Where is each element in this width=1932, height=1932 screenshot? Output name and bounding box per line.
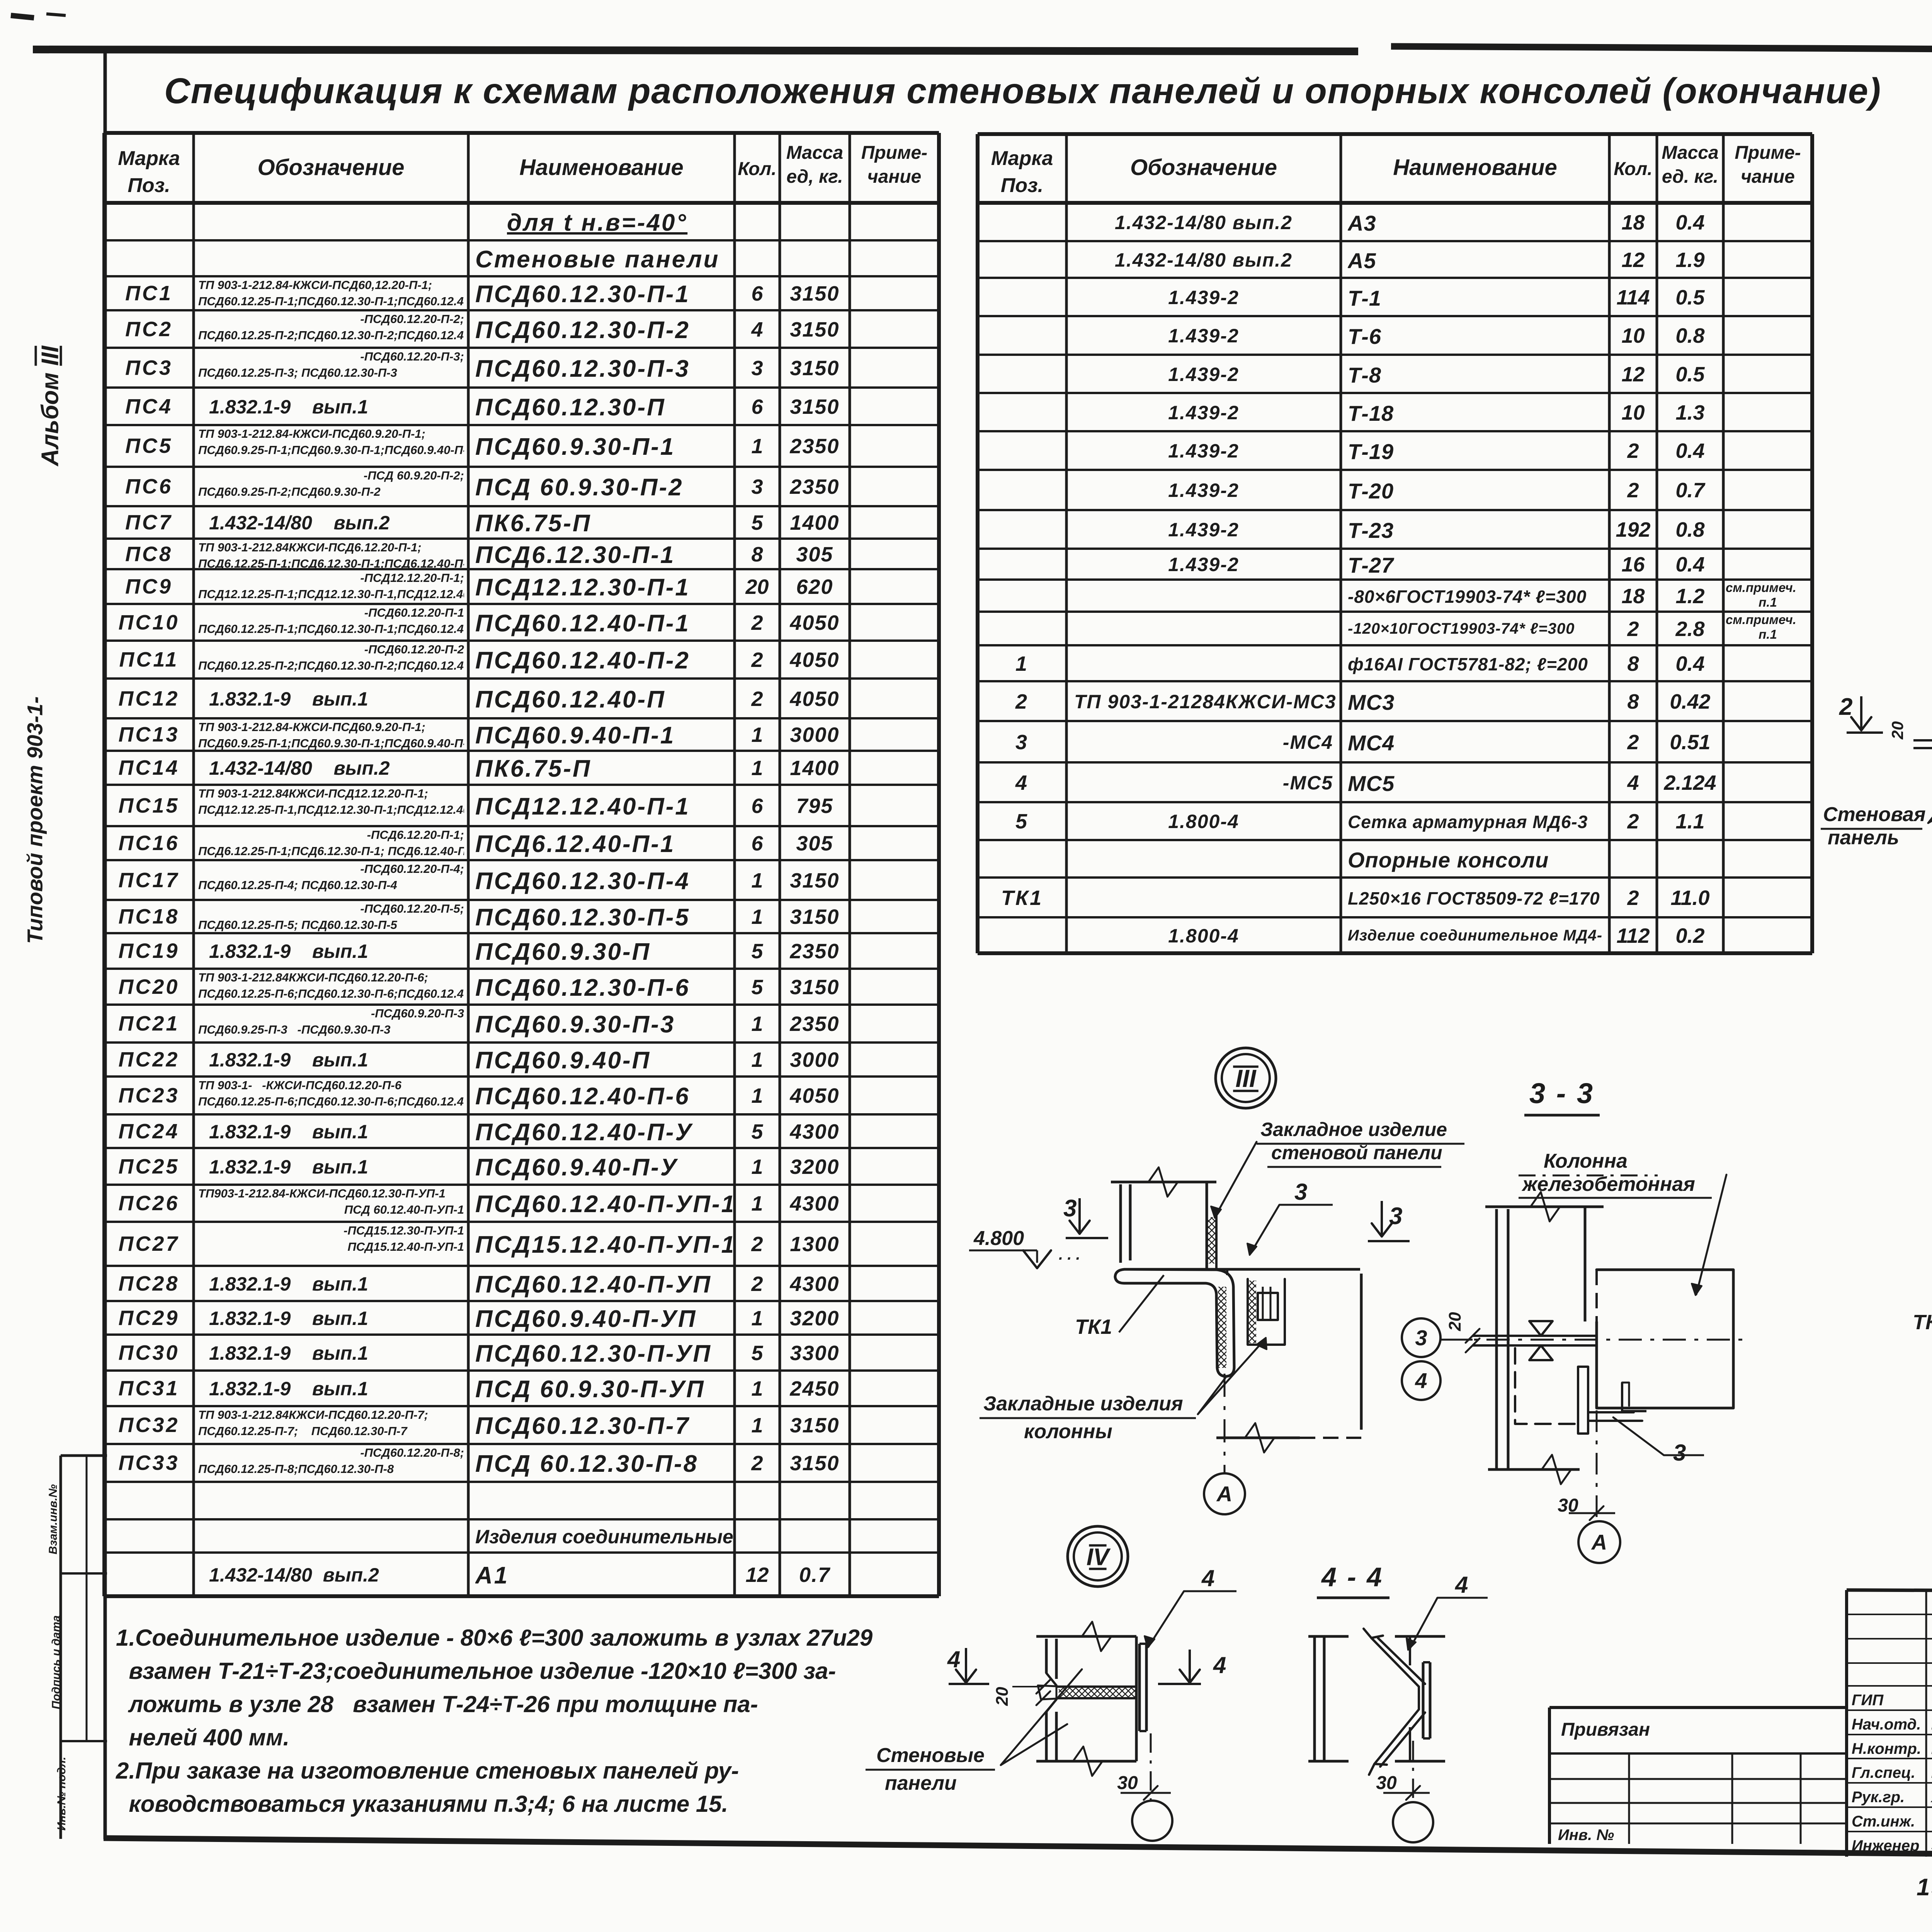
title block outer + columns	[1847, 1590, 1932, 1593]
margin text Типовой проект	[22, 673, 48, 967]
svg-text:Привязан: Привязан	[1561, 1719, 1650, 1740]
section 4-4 top line	[1395, 1635, 1445, 1638]
svg-text:Рук.гр.: Рук.гр.	[1852, 1789, 1905, 1806]
svg-text:Ст.инж.: Ст.инж.	[1852, 1813, 1915, 1830]
section 3-3 dashed hidden panel below joint	[1515, 1348, 1580, 1424]
node III TK1 shelf angle	[1115, 1269, 1234, 1376]
section 4-4 right edge verticals	[1409, 1636, 1411, 1665]
node III wall panel	[1111, 1181, 1216, 1184]
node III axis line + circle А	[1224, 1374, 1226, 1473]
svg-text:Н.контр.: Н.контр.	[1852, 1740, 1921, 1757]
scan artifact marks top-left	[11, 15, 34, 18]
node IV joint with mortar	[1056, 1685, 1136, 1688]
margin stamp boxes	[61, 1454, 107, 1457]
node IV embed plate right	[1138, 1644, 1141, 1731]
section 3-3 left column	[1485, 1206, 1604, 1208]
right table header text	[978, 145, 1066, 199]
section 3-3 right column block	[1597, 1270, 1733, 1408]
node III marker circle	[1216, 1048, 1276, 1108]
margin rotated small labels	[47, 1461, 60, 1577]
section 4-4 panel edge	[1308, 1635, 1349, 1638]
svg-text:Гл.спец.: Гл.спец.	[1852, 1764, 1915, 1781]
node IV axis circle	[1132, 1801, 1172, 1841]
svg-text:ГИП: ГИП	[1852, 1692, 1884, 1709]
node III section cut 3 (right)	[1381, 1201, 1383, 1236]
right specification table grid	[978, 132, 1812, 136]
node IV upper panel	[1036, 1635, 1136, 1638]
svg-text:Инженер: Инженер	[1852, 1837, 1919, 1854]
svg-text:19452-04 ЗО: 19452-04 ЗО	[1917, 1874, 1932, 1901]
svg-text:Нач.отд.: Нач.отд.	[1852, 1716, 1921, 1733]
node IV lower panel	[1046, 1699, 1056, 1712]
node IV marker circle	[1068, 1526, 1128, 1587]
sheet frame bottom border	[104, 1838, 1932, 1860]
title block staff row lines	[1847, 1614, 1932, 1615]
section 4-4 embed plate	[1422, 1662, 1425, 1738]
section 3-3 joint with diamonds	[1473, 1335, 1597, 1337]
left table header text	[104, 145, 194, 199]
node III embed pocket in column	[1248, 1279, 1285, 1345]
node IV section cut 4 (right)	[1189, 1650, 1191, 1683]
left table cell texts	[507, 209, 732, 236]
right table cell texts	[1074, 211, 1333, 234]
section 3-3 embed plate and angle	[1578, 1367, 1588, 1434]
sheet frame left border	[104, 49, 107, 1839]
notes text	[116, 1621, 872, 1821]
node III column body	[1226, 1269, 1228, 1275]
svg-text:Инв. №: Инв. №	[1558, 1827, 1614, 1844]
node III long ledge top line	[1124, 1268, 1360, 1271]
svg-text:Холодова: Холодова	[1930, 1789, 1932, 1806]
sheet frame top border	[33, 49, 1358, 51]
node II joint lines	[1913, 739, 1932, 742]
sheet title	[164, 70, 1881, 112]
section 3-3 axis circles 3 and 4	[1402, 1318, 1440, 1357]
section 4-4 V-brace anchors	[1371, 1638, 1425, 1687]
привязан box	[1549, 1706, 1847, 1709]
margin text Альбом III	[37, 329, 64, 483]
left specification table grid	[104, 131, 939, 135]
